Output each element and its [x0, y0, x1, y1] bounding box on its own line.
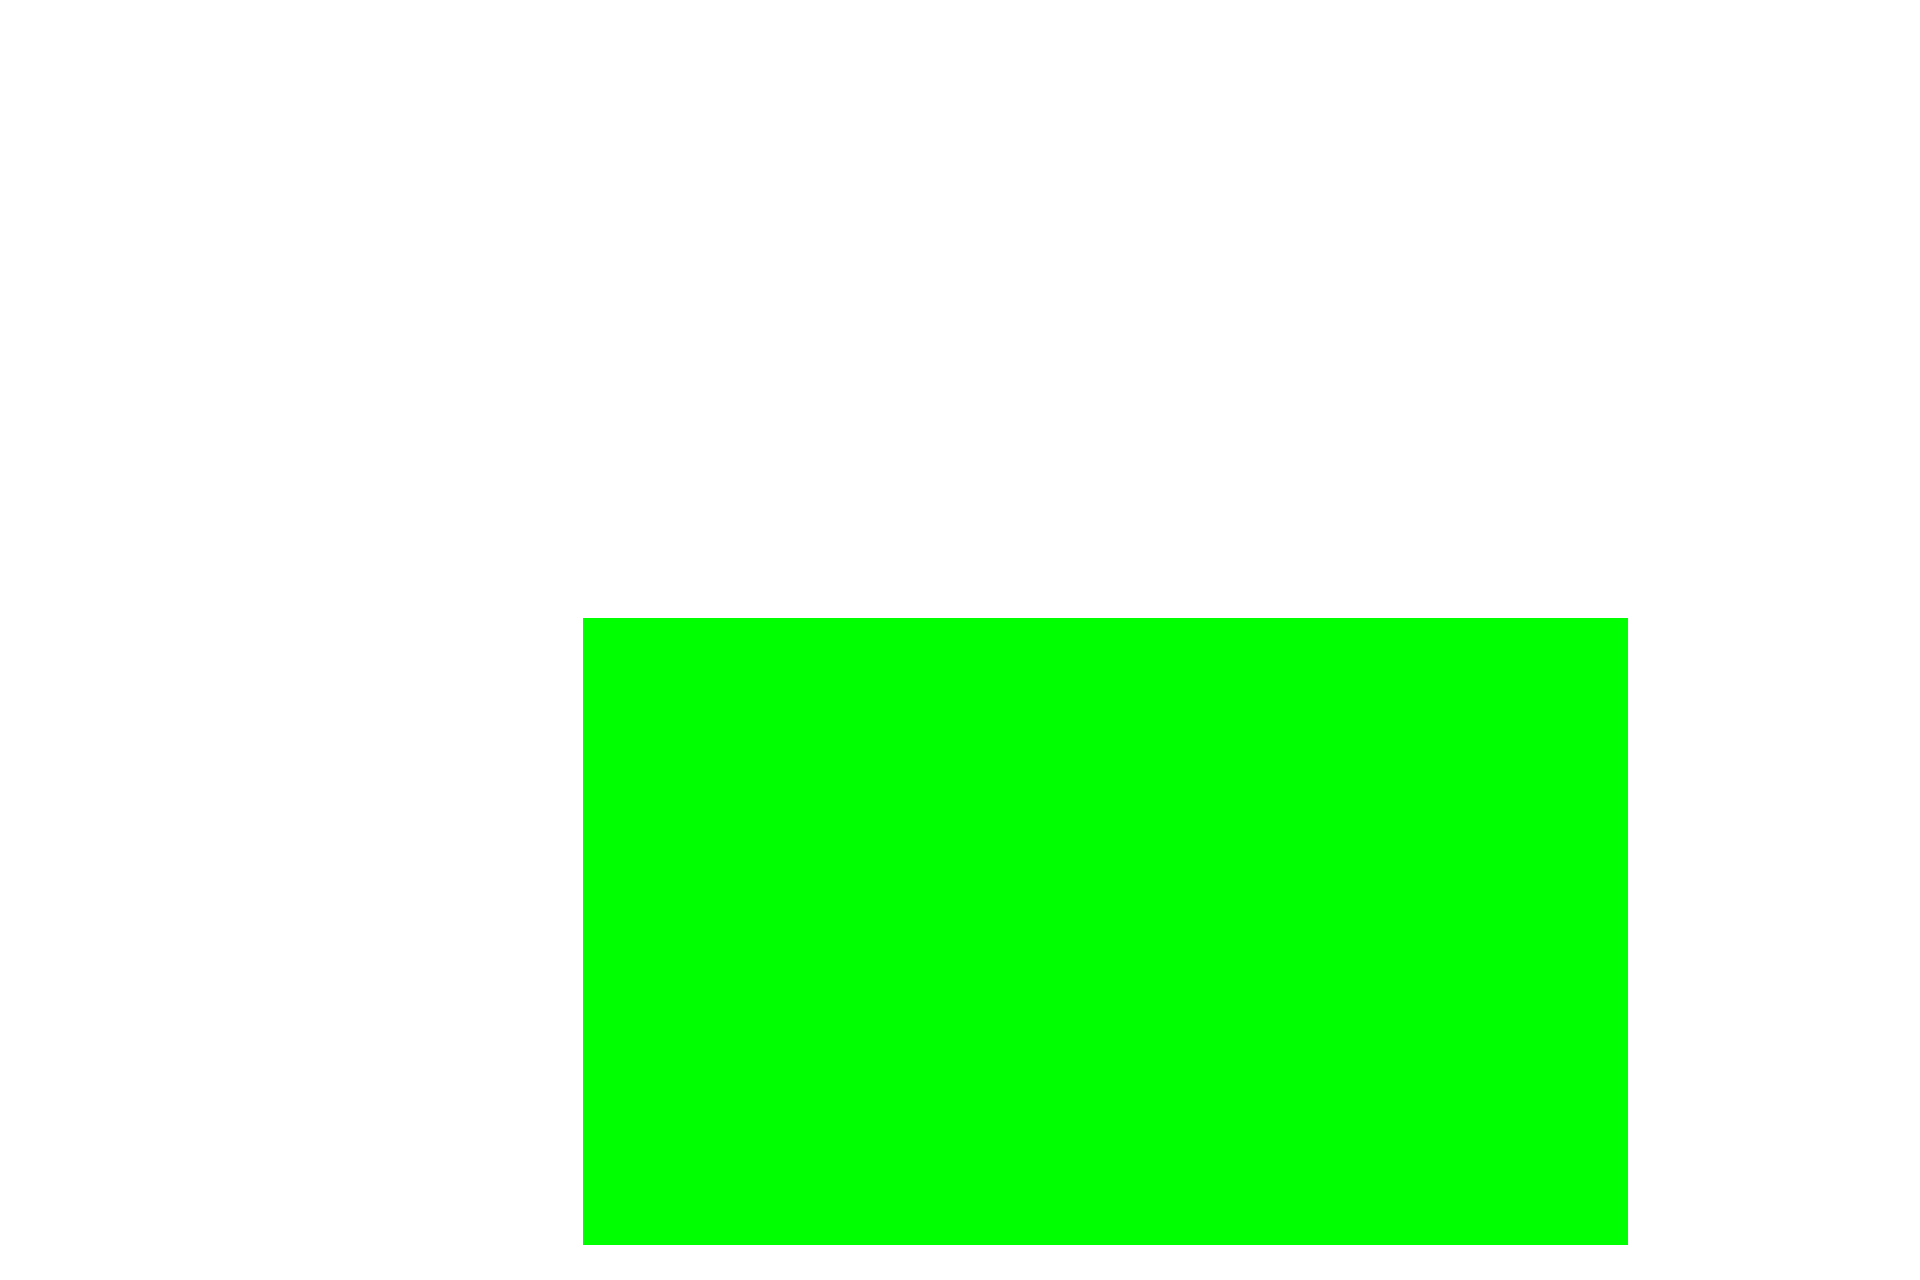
- green chroma-key placeholder rectangle: [583, 618, 1628, 1245]
